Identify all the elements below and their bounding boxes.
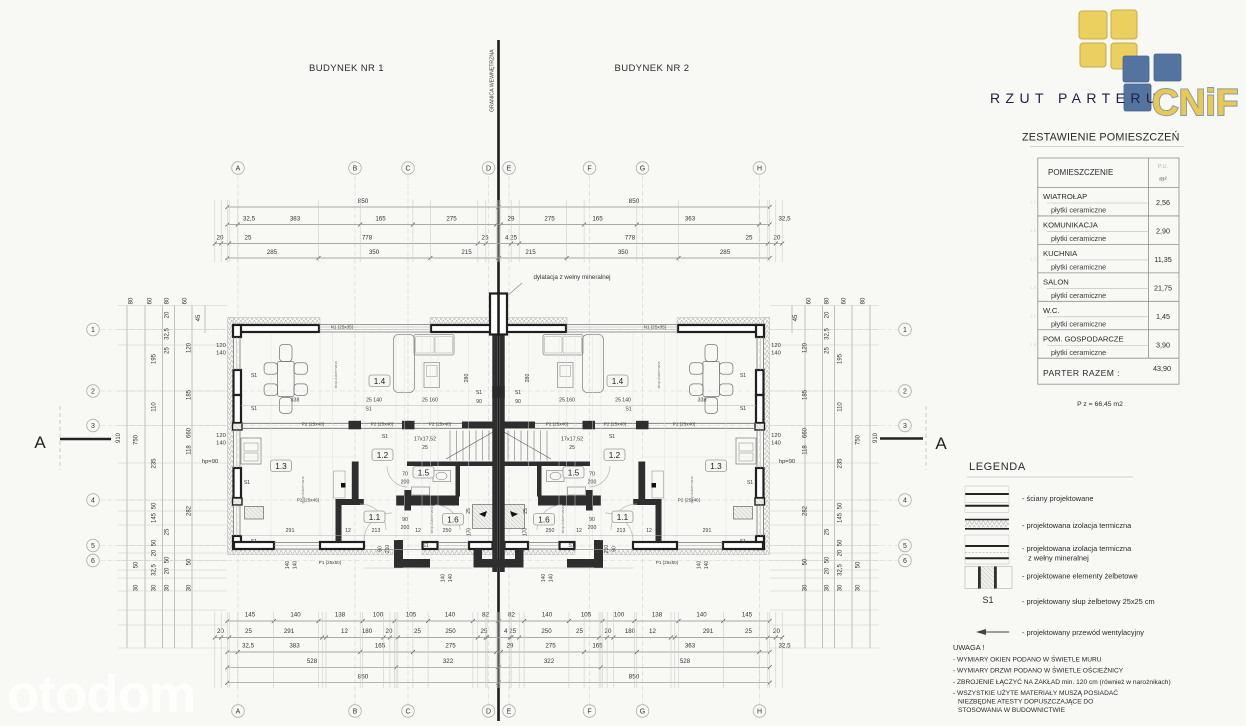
- svg-text:338: 338: [291, 398, 300, 404]
- svg-text:m²: m²: [1159, 176, 1166, 183]
- column grid lines: [238, 176, 760, 704]
- svg-text:- projektowane elementy żelbet: - projektowane elementy żelbetowe: [1022, 572, 1138, 581]
- svg-text:1.2: 1.2: [1030, 228, 1037, 233]
- room label 1.1 b2: [612, 511, 633, 523]
- room label 1.1: [364, 511, 385, 523]
- svg-text:płytki ceramiczne: płytki ceramiczne: [1051, 319, 1106, 328]
- room label 1.3 b2: [706, 460, 727, 472]
- top dimension row 285 350 215: [225, 249, 771, 260]
- svg-text:1.2: 1.2: [377, 451, 389, 460]
- svg-text:50: 50: [152, 539, 158, 546]
- svg-text:otodom: otodom: [7, 665, 195, 721]
- svg-text:235: 235: [838, 458, 844, 469]
- svg-text:80: 80: [165, 297, 171, 304]
- svg-text:- WYMIARY OKIEN PODANO W ŚWIET: - WYMIARY OKIEN PODANO W ŚWIETLE MURU: [953, 655, 1102, 664]
- svg-text:250: 250: [445, 628, 456, 635]
- svg-text:90: 90: [378, 546, 384, 552]
- svg-text:30: 30: [856, 584, 862, 591]
- room label 1.6: [443, 514, 464, 526]
- svg-text:250: 250: [546, 528, 555, 534]
- svg-text:S1: S1: [365, 407, 371, 413]
- svg-text:200: 200: [588, 480, 597, 486]
- svg-text:E: E: [507, 166, 512, 173]
- svg-text:25: 25: [523, 508, 529, 514]
- svg-text:45: 45: [196, 314, 202, 321]
- svg-text:KOMUNIKACJA: KOMUNIKACJA: [1043, 220, 1099, 229]
- svg-text:1.4: 1.4: [1030, 285, 1037, 290]
- svg-text:165: 165: [592, 216, 603, 223]
- row grid lines: [100, 330, 898, 561]
- svg-text:strop Ackermana: strop Ackermana: [430, 507, 434, 534]
- small plan annotations: [244, 325, 482, 583]
- svg-text:1.4: 1.4: [612, 377, 624, 386]
- svg-text:275: 275: [545, 643, 556, 650]
- svg-text:P z = 66,45 m2: P z = 66,45 m2: [1077, 401, 1123, 408]
- logo blue squares: [1123, 54, 1181, 111]
- svg-text:140: 140: [541, 574, 547, 583]
- svg-text:528: 528: [307, 658, 318, 665]
- svg-text:250: 250: [541, 628, 552, 635]
- svg-text:P1 (25x50): P1 (25x50): [656, 560, 679, 565]
- svg-text:250: 250: [443, 528, 452, 534]
- top dimension row 850: [225, 198, 771, 209]
- svg-text:140: 140: [448, 574, 454, 583]
- svg-text:1.1: 1.1: [617, 513, 629, 522]
- svg-text:90: 90: [402, 517, 408, 523]
- left wall window labels: [202, 343, 226, 465]
- svg-text:A: A: [935, 434, 947, 453]
- svg-text:235: 235: [152, 458, 158, 469]
- svg-text:140: 140: [445, 612, 456, 619]
- svg-text:282: 282: [803, 505, 809, 516]
- room label 1.5 b2: [563, 467, 584, 479]
- svg-text:ZESTAWIENIE POMIESZCZEŃ: ZESTAWIENIE POMIESZCZEŃ: [1022, 131, 1180, 144]
- svg-text:778: 778: [625, 235, 636, 242]
- svg-text:20: 20: [605, 628, 612, 635]
- svg-text:50: 50: [856, 561, 862, 568]
- svg-text:140: 140: [293, 561, 299, 570]
- svg-text:195: 195: [838, 353, 844, 364]
- svg-text:11,35: 11,35: [1154, 255, 1171, 264]
- svg-text:2,56: 2,56: [1156, 198, 1170, 207]
- svg-text:P2 (25x40): P2 (25x40): [673, 421, 696, 426]
- svg-text:17x17,52: 17x17,52: [561, 437, 583, 443]
- svg-text:- WSZYSTKIE UŻYTE MATERIAŁY MU: - WSZYSTKIE UŻYTE MATERIAŁY MUSZĄ POSIAD…: [953, 688, 1118, 697]
- svg-text:20: 20: [825, 567, 831, 574]
- svg-text:291: 291: [284, 628, 295, 635]
- svg-text:strop Ackermana: strop Ackermana: [657, 362, 661, 389]
- svg-text:3: 3: [903, 423, 907, 430]
- svg-text:BUDYNEK NR 1: BUDYNEK NR 1: [309, 63, 384, 74]
- svg-text:25: 25: [746, 235, 753, 242]
- svg-text:145: 145: [838, 512, 844, 523]
- svg-text:140: 140: [290, 612, 301, 619]
- svg-text:30: 30: [838, 584, 844, 591]
- svg-text:180: 180: [362, 628, 373, 635]
- svg-text:30: 30: [803, 584, 809, 591]
- svg-text:170: 170: [523, 528, 529, 537]
- svg-text:S1: S1: [609, 434, 615, 440]
- svg-text:25 160: 25 160: [422, 398, 438, 404]
- legend text insulation: [1022, 521, 1132, 530]
- svg-text:50: 50: [152, 502, 158, 509]
- uwaga notes: [953, 655, 1171, 715]
- svg-text:STOSOWANIA W BUDOWNICTWIE: STOSOWANIA W BUDOWNICTWIE: [958, 707, 1066, 714]
- svg-text:185: 185: [803, 389, 809, 400]
- svg-text:N1 (25x35): N1 (25x35): [644, 325, 667, 330]
- svg-text:165: 165: [375, 643, 386, 650]
- svg-text:138: 138: [335, 612, 346, 619]
- svg-text:20: 20: [773, 628, 780, 635]
- legend symbol insulation: [965, 520, 1009, 529]
- svg-text:291: 291: [703, 628, 714, 635]
- bottom dimension row 850: [225, 674, 771, 685]
- svg-text:20: 20: [217, 628, 224, 635]
- bottom dimension row small segments: [225, 612, 771, 624]
- uwaga heading: [953, 643, 984, 652]
- svg-text:50: 50: [838, 502, 844, 509]
- svg-text:UWAGA !: UWAGA !: [953, 643, 984, 652]
- svg-text:25: 25: [745, 628, 752, 635]
- svg-text:120: 120: [771, 433, 781, 439]
- small plan annotations: [515, 325, 753, 583]
- legend symbol mineral wool: [965, 535, 1009, 564]
- svg-text:1.5: 1.5: [568, 469, 580, 478]
- svg-text:25 160: 25 160: [559, 398, 575, 404]
- svg-text:2: 2: [903, 389, 907, 396]
- svg-text:140: 140: [549, 574, 555, 583]
- svg-text:363: 363: [685, 216, 696, 223]
- svg-text:528: 528: [680, 658, 691, 665]
- svg-text:25: 25: [569, 445, 575, 451]
- legend text walls: [1022, 494, 1093, 503]
- room label 1.4 b2: [607, 375, 628, 387]
- svg-text:50: 50: [134, 561, 140, 568]
- svg-text:210: 210: [604, 545, 610, 554]
- svg-text:660: 660: [803, 427, 809, 438]
- svg-text:WIATROŁAP: WIATROŁAP: [1043, 192, 1087, 201]
- svg-text:z wełny mineralnej: z wełny mineralnej: [1028, 554, 1089, 563]
- svg-text:- projektowana izolacja termic: - projektowana izolacja termiczna: [1022, 521, 1132, 530]
- svg-text:32,5: 32,5: [165, 328, 171, 340]
- svg-text:2: 2: [91, 389, 95, 396]
- svg-text:80: 80: [129, 297, 135, 304]
- svg-text:A: A: [34, 433, 46, 452]
- svg-text:120: 120: [803, 342, 809, 353]
- svg-text:280: 280: [525, 374, 531, 383]
- svg-text:165: 165: [592, 643, 603, 650]
- svg-text:C: C: [405, 166, 410, 173]
- svg-text:25: 25: [466, 508, 472, 514]
- svg-text:25: 25: [482, 235, 489, 242]
- svg-text:1.4: 1.4: [374, 377, 386, 386]
- svg-text:275: 275: [445, 643, 456, 650]
- svg-text:145: 145: [152, 512, 158, 523]
- svg-text:1.5: 1.5: [418, 469, 430, 478]
- svg-text:322: 322: [544, 658, 555, 665]
- svg-text:hp=90: hp=90: [202, 459, 218, 465]
- svg-text:12: 12: [646, 528, 652, 534]
- grid letter circles bottom: [232, 705, 766, 718]
- room label 1.4: [369, 375, 390, 387]
- svg-text:P2 (25x40): P2 (25x40): [546, 421, 569, 426]
- svg-text:750: 750: [134, 434, 140, 445]
- svg-text:120: 120: [216, 343, 226, 349]
- svg-text:P2 (25x40): P2 (25x40): [429, 421, 452, 426]
- top dimension row 20 25 778: [213, 235, 784, 246]
- bottom dimension row 20 25 291: [213, 628, 784, 640]
- svg-text:140: 140: [771, 441, 781, 447]
- svg-text:32,5: 32,5: [838, 564, 844, 576]
- svg-text:213: 213: [372, 528, 381, 534]
- svg-text:P.U.: P.U.: [1158, 164, 1169, 170]
- title building 2: [614, 63, 689, 74]
- svg-text:145: 145: [742, 612, 753, 619]
- svg-text:NIEZBĘDNE ATESTY DOPUSZCZAJĄCE: NIEZBĘDNE ATESTY DOPUSZCZAJĄCE DO: [958, 699, 1093, 706]
- svg-text:50: 50: [165, 556, 171, 563]
- svg-text:1.2: 1.2: [609, 451, 621, 460]
- svg-text:12: 12: [576, 528, 582, 534]
- svg-text:100: 100: [614, 612, 625, 619]
- central boundary line granica wewnetrzna: [490, 40, 499, 721]
- svg-text:S1: S1: [740, 373, 746, 379]
- svg-text:1.1: 1.1: [369, 513, 381, 522]
- bottom dimension extension lines: [215, 612, 782, 688]
- svg-text:140: 140: [696, 612, 707, 619]
- svg-text:6: 6: [91, 558, 95, 565]
- svg-text:25: 25: [245, 628, 252, 635]
- svg-text:80: 80: [825, 297, 831, 304]
- svg-text:17x17,52: 17x17,52: [414, 437, 436, 443]
- grid letter circles top: [232, 162, 766, 175]
- svg-text:43,90: 43,90: [1153, 364, 1171, 373]
- otodom watermark: [7, 665, 195, 724]
- svg-text:12: 12: [649, 628, 656, 635]
- svg-text:B: B: [353, 709, 358, 716]
- svg-text:30: 30: [152, 584, 158, 591]
- svg-text:PARTER RAZEM :: PARTER RAZEM :: [1043, 368, 1120, 378]
- svg-text:P2 (25x40): P2 (25x40): [302, 421, 325, 426]
- svg-text:90: 90: [589, 517, 595, 523]
- svg-text:910: 910: [873, 432, 879, 443]
- svg-text:140: 140: [697, 561, 703, 570]
- svg-text:20: 20: [774, 235, 781, 242]
- svg-text:SALON: SALON: [1043, 277, 1069, 286]
- table title: [1022, 131, 1184, 147]
- svg-text:21,75: 21,75: [1154, 283, 1172, 292]
- svg-text:1.6: 1.6: [1030, 342, 1037, 347]
- svg-text:1.3: 1.3: [1030, 256, 1037, 261]
- svg-text:200: 200: [401, 480, 410, 486]
- svg-text:32,5: 32,5: [243, 216, 256, 223]
- svg-text:1.5: 1.5: [1030, 313, 1037, 318]
- svg-text:118: 118: [187, 445, 193, 455]
- legend symbol reinforced concrete: [965, 567, 1012, 589]
- room label 1.6 b2: [534, 514, 555, 526]
- svg-text:20: 20: [152, 549, 158, 556]
- svg-text:H: H: [757, 166, 762, 173]
- svg-text:S1: S1: [476, 390, 482, 396]
- svg-text:213: 213: [617, 528, 626, 534]
- svg-text:118: 118: [803, 445, 809, 455]
- svg-text:275: 275: [446, 216, 457, 223]
- svg-text:12: 12: [341, 628, 348, 635]
- svg-text:215: 215: [461, 249, 472, 256]
- svg-text:P2 (25x40): P2 (25x40): [604, 421, 627, 426]
- svg-text:120: 120: [216, 433, 226, 439]
- svg-text:6: 6: [903, 558, 907, 565]
- svg-text:1.3: 1.3: [710, 462, 722, 471]
- svg-text:- projektowana izolacja termic: - projektowana izolacja termiczna: [1022, 544, 1132, 553]
- svg-text:12: 12: [345, 528, 351, 534]
- svg-text:350: 350: [618, 249, 629, 256]
- logo text CNiF: [1152, 82, 1238, 123]
- svg-text:płytki ceramiczne: płytki ceramiczne: [1051, 234, 1106, 243]
- svg-text:S1: S1: [740, 406, 746, 412]
- svg-text:25 140: 25 140: [366, 398, 382, 404]
- svg-text:110: 110: [152, 402, 158, 412]
- svg-text:285: 285: [267, 249, 278, 256]
- svg-text:B: B: [353, 166, 358, 173]
- svg-text:płytki ceramiczne: płytki ceramiczne: [1051, 348, 1106, 357]
- svg-text:25: 25: [165, 528, 171, 535]
- svg-text:210: 210: [385, 545, 391, 554]
- svg-text:140: 140: [542, 612, 553, 619]
- svg-text:275: 275: [544, 216, 555, 223]
- svg-text:20: 20: [165, 567, 171, 574]
- svg-text:płytki ceramiczne: płytki ceramiczne: [1051, 262, 1106, 271]
- svg-text:140: 140: [216, 441, 226, 447]
- svg-text:S1: S1: [747, 480, 753, 486]
- svg-text:strop Ackermana: strop Ackermana: [301, 477, 305, 504]
- svg-text:910: 910: [116, 432, 122, 443]
- svg-text:S1: S1: [382, 434, 388, 440]
- svg-text:120: 120: [771, 343, 781, 349]
- svg-text:140: 140: [704, 561, 710, 570]
- legend text mineral wool: [1022, 544, 1132, 563]
- room label 1.5: [413, 467, 434, 479]
- svg-text:291: 291: [286, 528, 295, 534]
- svg-text:82: 82: [508, 612, 515, 619]
- svg-text:GRANICA WEWNĘTRZNA: GRANICA WEWNĘTRZNA: [490, 49, 496, 112]
- svg-text:2,90: 2,90: [1156, 226, 1170, 235]
- section marker A left: [34, 406, 111, 470]
- svg-text:45: 45: [793, 314, 799, 321]
- svg-text:4: 4: [91, 498, 95, 505]
- svg-text:S1: S1: [251, 373, 257, 379]
- svg-text:50: 50: [803, 558, 809, 565]
- room label 1.3: [271, 460, 292, 472]
- svg-text:F: F: [587, 709, 591, 716]
- svg-text:S1: S1: [625, 407, 631, 413]
- svg-text:3,90: 3,90: [1156, 340, 1170, 349]
- legend text S1: [1022, 597, 1155, 606]
- svg-text:105: 105: [406, 612, 417, 619]
- legend text vent: [1022, 628, 1144, 637]
- svg-text:- projektowany słup żelbetowy: - projektowany słup żelbetowy 25x25 cm: [1022, 597, 1155, 606]
- svg-text:- ZBROJENIE ŁĄCZYĆ NA ZAKŁAD m: - ZBROJENIE ŁĄCZYĆ NA ZAKŁAD min. 120 cm…: [953, 677, 1171, 686]
- svg-text:1.6: 1.6: [538, 516, 550, 525]
- svg-text:BUDYNEK NR 2: BUDYNEK NR 2: [614, 63, 689, 74]
- svg-text:30: 30: [187, 584, 193, 591]
- dylatacja label: [506, 274, 611, 297]
- svg-text:1.3: 1.3: [275, 462, 287, 471]
- svg-text:25: 25: [165, 347, 171, 354]
- svg-text:25: 25: [825, 528, 831, 535]
- svg-text:110: 110: [838, 402, 844, 412]
- svg-text:20: 20: [386, 628, 393, 635]
- svg-text:140: 140: [216, 351, 226, 357]
- svg-text:32,5: 32,5: [778, 216, 791, 223]
- svg-text:4 25: 4 25: [504, 628, 517, 635]
- svg-text:285: 285: [720, 249, 731, 256]
- building 1 walls and furniture: [228, 318, 499, 569]
- svg-text:291: 291: [703, 528, 712, 534]
- svg-text:1,45: 1,45: [1156, 312, 1170, 321]
- svg-text:32,5: 32,5: [242, 643, 255, 650]
- svg-text:50: 50: [825, 556, 831, 563]
- svg-text:S1: S1: [568, 543, 574, 549]
- svg-text:140: 140: [285, 561, 291, 570]
- svg-text:120: 120: [187, 342, 193, 353]
- svg-text:778: 778: [362, 235, 373, 242]
- svg-text:50: 50: [187, 558, 193, 565]
- area note Pz: [1077, 401, 1123, 408]
- svg-text:strop Ackermana: strop Ackermana: [334, 362, 338, 389]
- svg-text:dylatacja z wełny mineralnej: dylatacja z wełny mineralnej: [533, 274, 610, 281]
- bottom dimension row 32,5 383: [225, 643, 791, 655]
- title building 1: [309, 63, 384, 74]
- svg-text:G: G: [640, 166, 645, 173]
- top dimension row segments: [225, 216, 791, 227]
- svg-text:165: 165: [375, 216, 386, 223]
- row number circles left: [87, 323, 100, 567]
- svg-text:- WYMIARY DRZWI PODANO W ŚWIET: - WYMIARY DRZWI PODANO W ŚWIETLE OŚCIEŻN…: [953, 666, 1124, 675]
- svg-text:F: F: [587, 166, 591, 173]
- svg-text:29: 29: [507, 643, 514, 650]
- svg-text:S1: S1: [982, 595, 993, 605]
- svg-text:E: E: [507, 709, 512, 716]
- logo yellow squares: [1079, 10, 1137, 69]
- svg-text:S1: S1: [251, 406, 257, 412]
- svg-text:215: 215: [525, 249, 536, 256]
- centre party walls: [490, 292, 507, 572]
- svg-text:5: 5: [903, 543, 907, 550]
- svg-text:20: 20: [165, 311, 171, 318]
- left vertical dimensions: [116, 297, 227, 648]
- svg-text:25: 25: [825, 347, 831, 354]
- svg-text:90: 90: [612, 546, 618, 552]
- svg-text:25: 25: [414, 628, 421, 635]
- svg-text:1.1: 1.1: [1030, 200, 1037, 205]
- svg-text:strop Ackermana: strop Ackermana: [690, 477, 694, 504]
- svg-text:A: A: [236, 166, 241, 173]
- logo text RZUT PARTERU: [990, 90, 1161, 106]
- legend symbol walls: [965, 486, 1009, 513]
- svg-text:32,5: 32,5: [778, 643, 791, 650]
- svg-text:138: 138: [652, 612, 663, 619]
- svg-text:200: 200: [588, 525, 597, 531]
- svg-text:170: 170: [467, 528, 473, 537]
- svg-text:383: 383: [289, 643, 300, 650]
- svg-text:145: 145: [245, 612, 256, 619]
- svg-text:RZUT PARTERU: RZUT PARTERU: [990, 90, 1161, 106]
- svg-text:- projektowany przewód wentyla: - projektowany przewód wentylacyjny: [1022, 628, 1144, 637]
- svg-text:D: D: [486, 709, 491, 716]
- svg-text:G: G: [640, 709, 645, 716]
- room label 1.2 b2: [604, 449, 625, 461]
- svg-text:S1: S1: [740, 539, 746, 545]
